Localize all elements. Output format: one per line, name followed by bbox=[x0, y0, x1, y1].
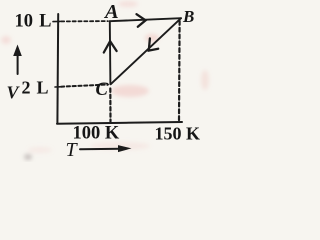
svg-text:A: A bbox=[103, 1, 119, 23]
svg-text:150 K: 150 K bbox=[155, 124, 201, 144]
paper background bbox=[0, 0, 220, 162]
svg-text:10 L: 10 L bbox=[15, 12, 52, 32]
svg-text:100 K: 100 K bbox=[73, 124, 120, 144]
process line C to A (isochore) bbox=[109, 21, 112, 84]
dashed drop line C to 100 K bbox=[109, 89, 111, 122]
dashed gridline 10 L to A bbox=[61, 20, 108, 22]
svg-text:V: V bbox=[7, 83, 21, 103]
V axis (vertical) bbox=[56, 14, 59, 124]
process line B to C bbox=[111, 18, 181, 84]
dashed drop line B to 150 K bbox=[178, 21, 181, 122]
process line A to B (isobar) bbox=[110, 18, 181, 21]
V axis arrow (margin) bbox=[17, 52, 19, 74]
arrowhead on B-C pointing to C bbox=[149, 38, 158, 50]
scan smudge pink blobs bbox=[1, 1, 209, 160]
svg-text:T: T bbox=[66, 139, 79, 161]
tick 10 L bbox=[53, 20, 60, 22]
dashed gridline 2 L to C bbox=[61, 85, 108, 87]
svg-text:B: B bbox=[182, 7, 194, 26]
arrowhead right on A-B bbox=[137, 14, 146, 27]
T axis (horizontal) bbox=[57, 122, 182, 124]
svg-text:C: C bbox=[96, 80, 109, 100]
arrowhead up on C-A bbox=[104, 41, 117, 52]
T axis arrow (margin) bbox=[80, 148, 122, 151]
svg-text:2 L: 2 L bbox=[22, 78, 49, 98]
tick 2 L bbox=[55, 86, 60, 88]
